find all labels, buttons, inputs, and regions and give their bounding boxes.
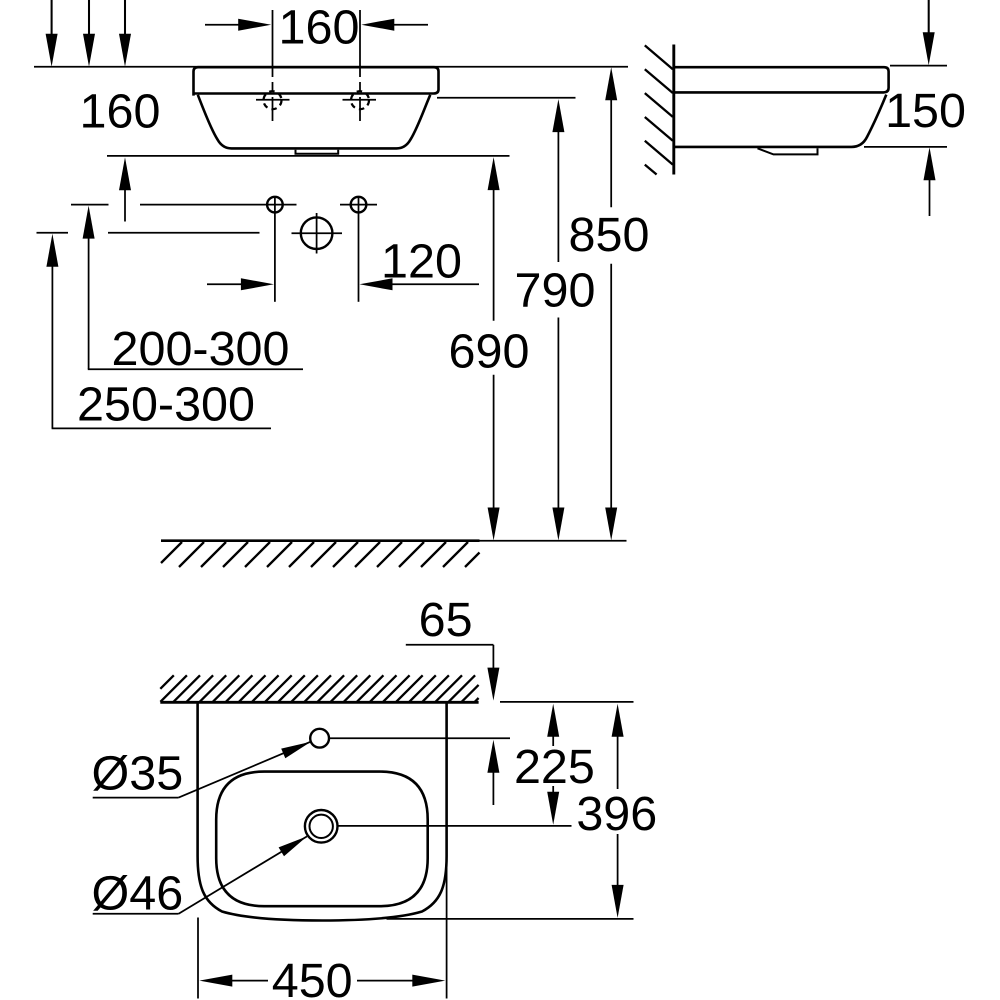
dimension 150: top extension line [890,65,947,67]
wall face line (side view) [672,45,675,175]
drain centerline extension (plan view) [339,825,572,827]
wall hatching (side view) [645,45,673,174]
basin rim profile (side view) [674,67,889,92]
tap hole (plan view) [310,729,329,748]
label leader Ø46 [93,913,179,915]
dimension 120: left arrow [207,283,244,285]
basin bowl profile (side view) [674,95,887,147]
svg-text:120: 120 [381,235,462,289]
dimension 150: top arrow [928,0,930,33]
dimension 160 top: right arrow [392,24,428,26]
basin bottom extension line (690 level) [107,155,510,157]
dimension 396: line and arrows [612,704,624,737]
dimension 690: line and arrows [488,157,500,190]
svg-text:450: 450 [272,954,353,1000]
load arrow 3 onto wall line [124,0,126,35]
wall drain hole (front view) [301,217,333,249]
load arrow 1 onto wall line [51,0,53,35]
load arrow 2 onto wall line [88,0,90,35]
svg-text:396: 396 [576,787,657,841]
svg-text:850: 850 [569,208,650,262]
svg-text:690: 690 [449,324,530,378]
dimension 120: right arrow [391,283,479,285]
dimension 200-300: arrow and leader [83,206,95,239]
drain hole centerline extension to left [108,232,260,234]
dimension 450: left extension line [197,918,199,999]
svg-text:200-300: 200-300 [112,322,290,376]
dimension 250-300: arrow and leader [46,234,58,267]
basin inner bowl outline (plan view) [216,772,428,907]
hidden tap hole right (dashed circle, front view) [351,91,369,109]
dimension 150: bottom extension line [864,146,947,148]
dimension 160 top: left arrow [205,24,240,26]
wall tap hole left (front view) [267,197,283,213]
wall reference line (front view, 850 level) [34,66,628,68]
dimension 65: leader and arrows [406,644,494,646]
svg-text:Ø46: Ø46 [92,866,184,920]
svg-text:250-300: 250-300 [77,378,255,432]
label leader Ø35 [93,797,179,799]
svg-text:225: 225 [514,740,595,794]
svg-text:160: 160 [80,85,161,139]
hidden tap hole left (dashed circle, front view) [264,91,282,109]
basin rim outline (front view) [194,67,439,95]
dimension 450: right extension line [446,855,448,999]
centerline through left tap hole (deck) [272,10,274,121]
dimension 200-300: level tick [71,204,109,206]
dimension 250-300: level tick [37,232,69,234]
drain tab (side view) [758,148,818,154]
wall face line (plan view) [160,701,478,704]
dimension 225: line and arrows [547,704,559,737]
dimension 160 left: arrow to basin bottom line [119,157,131,190]
drain tab (front view) [296,150,339,154]
floor hatching [161,542,480,567]
svg-text:790: 790 [515,263,596,317]
basin bottom extension line (plan view) [387,918,634,920]
wall hatching (plan view) [160,675,478,702]
svg-text:65: 65 [419,593,473,647]
tap hole centerline extension (plan view) [330,737,510,739]
dimension 850: line and arrows [605,67,617,100]
dimension 450: line and arrows [199,975,232,987]
rim bottom extension line (790 level) [437,97,576,99]
wall tap hole right (front view) [351,197,367,213]
svg-text:160: 160 [279,1,360,55]
svg-text:150: 150 [885,84,966,138]
centerline through right tap hole (deck) [359,10,361,121]
dimension 150: bottom arrow [924,147,936,180]
basin outer outline (plan view) [198,702,447,921]
floor line [161,539,480,542]
basin bowl outline (front view) [198,95,430,149]
drain hole (plan view) [305,810,338,843]
svg-text:Ø35: Ø35 [92,746,184,800]
dimension 790: line and arrows [552,99,564,132]
